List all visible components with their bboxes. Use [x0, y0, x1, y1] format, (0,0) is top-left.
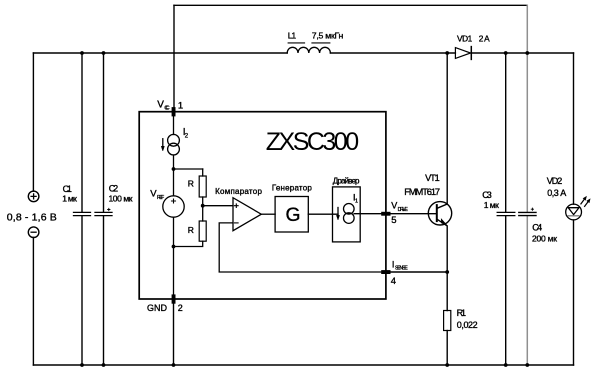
svg-text:Генератор: Генератор	[272, 184, 312, 193]
svg-text:5: 5	[391, 215, 396, 226]
svg-text:REF: REF	[157, 195, 164, 201]
svg-text:C1: C1	[63, 184, 72, 194]
svg-text:0,8 - 1,6 В: 0,8 - 1,6 В	[7, 212, 57, 224]
svg-text:1: 1	[355, 199, 358, 205]
svg-text:G: G	[286, 205, 301, 226]
svg-text:0,3 А: 0,3 А	[547, 188, 566, 198]
svg-text:0,022: 0,022	[457, 320, 478, 330]
svg-text:Компаратор: Компаратор	[215, 187, 262, 196]
svg-text:2: 2	[178, 303, 183, 313]
svg-text:C3: C3	[482, 190, 492, 200]
svg-text:7,5 мкГн: 7,5 мкГн	[312, 30, 344, 40]
svg-text:R: R	[188, 225, 194, 235]
svg-text:R: R	[188, 178, 194, 188]
svg-text:GND: GND	[147, 303, 168, 313]
svg-text:1: 1	[178, 101, 183, 112]
svg-text:200 мк: 200 мк	[532, 233, 557, 243]
svg-text:1 мк: 1 мк	[484, 200, 499, 210]
svg-text:VD2: VD2	[547, 176, 563, 186]
svg-text:V: V	[391, 201, 397, 211]
svg-text:L1: L1	[288, 30, 297, 40]
svg-text:Драйвер: Драйвер	[333, 177, 360, 186]
svg-text:100 мк: 100 мк	[109, 194, 133, 204]
svg-text:V: V	[157, 99, 164, 110]
svg-text:R1: R1	[457, 308, 466, 318]
svg-text:VT1: VT1	[425, 173, 440, 183]
svg-text:CC: CC	[164, 106, 169, 112]
svg-text:2A: 2A	[479, 33, 490, 43]
svg-text:FMMT617: FMMT617	[404, 187, 440, 197]
svg-text:1 мк: 1 мк	[62, 194, 77, 204]
svg-text:C2: C2	[109, 183, 118, 193]
svg-text:C4: C4	[532, 223, 542, 233]
svg-text:VD1: VD1	[457, 33, 473, 43]
svg-text:4: 4	[391, 276, 396, 287]
svg-text:SENSE: SENSE	[395, 266, 408, 272]
svg-text:DRIVE: DRIVE	[398, 207, 409, 213]
svg-text:ZXSC300: ZXSC300	[266, 128, 359, 156]
